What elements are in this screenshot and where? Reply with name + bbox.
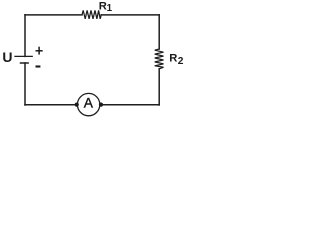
node junction right: [99, 103, 103, 107]
wire left upper: [24, 15, 26, 57]
wire top-left segment: [25, 14, 82, 16]
battery U long plate: [15, 55, 32, 57]
ammeter A circle: [77, 93, 99, 115]
wire left lower: [24, 63, 26, 105]
svg-text:A: A: [84, 96, 94, 111]
battery U short plate: [21, 62, 29, 64]
plus terminal: [36, 47, 43, 55]
resistor R1: [82, 10, 101, 19]
wire right lower: [158, 69, 160, 105]
wire bottom-left segment: [25, 104, 77, 106]
svg-text:U: U: [2, 49, 12, 65]
resistor R2: [155, 49, 164, 69]
svg-text:R: R: [169, 53, 177, 65]
wire bottom-right segment: [101, 104, 159, 106]
svg-text:2: 2: [178, 56, 184, 67]
wire right upper: [158, 15, 160, 49]
svg-text:1: 1: [107, 3, 113, 14]
node junction left: [75, 103, 79, 107]
svg-text:R: R: [99, 0, 107, 12]
minus terminal: [36, 65, 41, 67]
wire top-right segment: [101, 14, 159, 16]
